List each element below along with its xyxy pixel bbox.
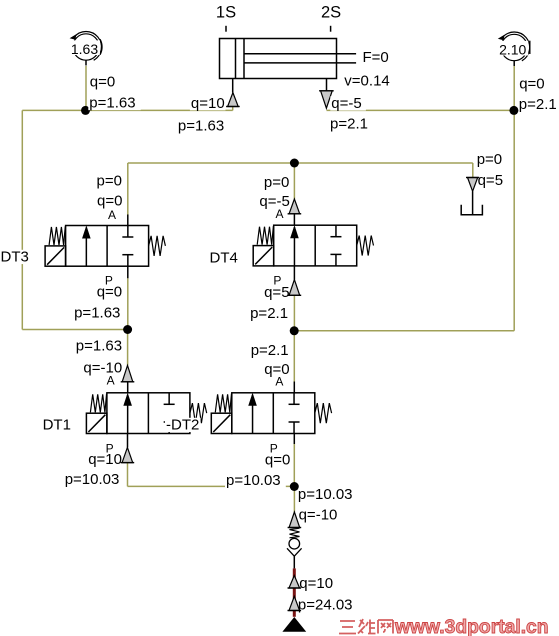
svg-text:p=1.63: p=1.63 [178,118,224,135]
svg-text:q=10: q=10 [88,451,122,468]
svg-text:q=0: q=0 [265,452,290,469]
svg-text:p=2.1: p=2.1 [519,96,557,113]
svg-text:-DT2: -DT2 [166,417,199,434]
svg-text:A: A [275,375,283,389]
svg-text:2S: 2S [321,4,341,22]
svg-text:www.3dportal.cn: www.3dportal.cn [394,617,549,636]
svg-text:p=0: p=0 [97,173,122,190]
svg-text:q=0: q=0 [97,283,122,300]
svg-text:q=-5: q=-5 [331,95,361,112]
svg-text:q=10: q=10 [299,575,333,592]
svg-text:q=10: q=10 [191,95,225,112]
svg-text:p=24.03: p=24.03 [298,597,353,614]
svg-text:p=2.1: p=2.1 [251,342,289,359]
svg-text:p=1.63: p=1.63 [76,338,122,355]
svg-text:DT1: DT1 [43,416,71,433]
svg-text:p=10.03: p=10.03 [226,472,281,489]
svg-text:q=-10: q=-10 [299,506,338,523]
svg-text:q=5: q=5 [264,284,289,301]
svg-text:A: A [107,374,115,388]
svg-text:q=0: q=0 [90,74,115,91]
svg-text:p=1.63: p=1.63 [89,95,135,112]
svg-text:DT4: DT4 [210,250,238,267]
svg-text:DT3: DT3 [1,249,29,266]
svg-text:p=0: p=0 [264,174,289,191]
svg-text:p=0: p=0 [477,151,502,168]
svg-text:p=10.03: p=10.03 [65,471,120,488]
svg-text:q=0: q=0 [519,75,544,92]
svg-text:q=5: q=5 [478,172,503,189]
svg-text:p=1.63: p=1.63 [74,304,120,321]
svg-text:1S: 1S [216,4,236,22]
svg-text:p=2.1: p=2.1 [250,305,288,322]
svg-text:v=0.14: v=0.14 [344,73,389,90]
svg-text:F=0: F=0 [363,49,389,66]
svg-text:1.63: 1.63 [71,41,98,57]
svg-text:A: A [108,208,116,222]
svg-text:A: A [276,207,284,221]
svg-text:2.10: 2.10 [499,42,526,58]
svg-text:p=2.1: p=2.1 [330,116,368,133]
svg-text:q=0: q=0 [97,193,122,210]
svg-text:p=10.03: p=10.03 [298,486,353,503]
svg-text:q=-10: q=-10 [83,359,122,376]
